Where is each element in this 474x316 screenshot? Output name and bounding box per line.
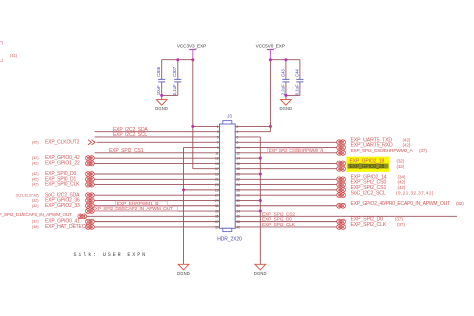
svg-text:DGND: DGND (155, 106, 168, 111)
svg-text:EXP_SPI0_CLK: EXP_SPI0_CLK (45, 182, 80, 188)
svg-text:(32): (32) (32, 219, 39, 224)
svg-text:EXP_SPI2_CLK: EXP_SPI2_CLK (262, 222, 296, 228)
svg-text:(38): (38) (32, 224, 39, 229)
svg-text:(42): (42) (398, 180, 406, 185)
svg-text:17: 17 (215, 167, 219, 171)
svg-text:EXP_I2C2_SCL: EXP_I2C2_SCL (113, 132, 147, 138)
svg-text:DGND: DGND (177, 271, 190, 276)
svg-text:EXP_SPI2_CS2: EXP_SPI2_CS2 (262, 211, 295, 217)
svg-text:(37): (37) (419, 148, 427, 153)
svg-text:EXP_SPI2_CLK: EXP_SPI2_CLK (351, 222, 387, 228)
svg-text:(42): (42) (398, 185, 406, 190)
svg-text:C43: C43 (280, 69, 285, 77)
svg-text:(32): (32) (397, 164, 405, 169)
svg-text:Silk: USER EXPN: Silk: USER EXPN (74, 252, 148, 258)
svg-text:EXP_CLKOUT2: EXP_CLKOUT2 (45, 139, 80, 145)
svg-text:VCC5V0_EXP: VCC5V0_EXP (256, 44, 285, 49)
svg-text:EXP_SPI2_D0: EXP_SPI2_D0 (262, 217, 292, 223)
svg-text:EXP_SPI2_CS1: EXP_SPI2_CS1 (109, 148, 144, 154)
svg-text:10uF: 10uF (156, 85, 161, 95)
svg-text:J3: J3 (227, 114, 232, 119)
svg-text:VCC3V3_EXP: VCC3V3_EXP (177, 44, 206, 49)
svg-text:DGND: DGND (254, 271, 267, 276)
svg-text:EXP_HAT_DETECT: EXP_HAT_DETECT (45, 224, 88, 230)
svg-text:(32): (32) (32, 155, 39, 160)
svg-text:(42): (42) (32, 176, 39, 181)
svg-text:0.1uF: 0.1uF (172, 84, 177, 95)
svg-text:HDR_2X20: HDR_2X20 (217, 236, 242, 242)
svg-text:(37): (37) (397, 222, 405, 227)
svg-text:0.1uF: 0.1uF (294, 84, 299, 95)
svg-text:(42): (42) (403, 143, 411, 148)
svg-text:C307: C307 (172, 66, 177, 77)
svg-text:(42): (42) (32, 139, 39, 144)
svg-text:EXP_SPI2_D0/ECAP2_IN_APWM_OUT: EXP_SPI2_D0/ECAP2_IN_APWM_OUT (92, 206, 173, 212)
svg-text:(42): (42) (32, 171, 39, 176)
svg-text:(42): (42) (403, 137, 411, 142)
svg-text:EXP_GPIO1_22: EXP_GPIO1_22 (45, 161, 80, 167)
svg-text:P_SPI2_D1/ECAP2_IN_APWM_OUT: P_SPI2_D1/ECAP2_IN_APWM_OUT (0, 212, 72, 218)
svg-text:(32): (32) (32, 203, 39, 208)
svg-text:(41): (41) (10, 53, 18, 58)
svg-text:(32): (32) (397, 159, 405, 164)
svg-text:(37): (37) (395, 217, 403, 222)
svg-text:EXP_GPIO2_40/PR0_ECAP0_IN_APWM: EXP_GPIO2_40/PR0_ECAP0_IN_APWM_OUT (351, 201, 451, 207)
svg-text:(34): (34) (398, 174, 406, 179)
svg-text:(9,21,32,37,42): (9,21,32,37,42) (396, 190, 434, 195)
svg-text:(42): (42) (32, 182, 39, 187)
svg-text:EXP_GPIO2_33: EXP_GPIO2_33 (45, 203, 80, 209)
svg-text:C44: C44 (294, 69, 299, 77)
svg-text:SoC_I2C2_SCL: SoC_I2C2_SCL (351, 190, 386, 196)
svg-text:EXP_UART5_RXD: EXP_UART5_RXD (351, 143, 393, 149)
svg-text:C306: C306 (156, 66, 161, 77)
svg-text:(32): (32) (32, 198, 39, 203)
svg-text:2.2uF: 2.2uF (280, 84, 285, 95)
svg-text:(42): (42) (32, 161, 39, 166)
svg-text:EXP_SPI2_CS0/EHRPWM0_A: EXP_SPI2_CS0/EHRPWM0_A (269, 148, 323, 153)
svg-text:EXP_SPI2_CS0/EHRPWM0_A: EXP_SPI2_CS0/EHRPWM0_A (351, 148, 414, 154)
svg-text:(32): (32) (456, 201, 464, 206)
svg-text:EXP_GPIO2_28: EXP_GPIO2_28 (350, 164, 385, 170)
svg-text:EXP_EHRPWM1_B: EXP_EHRPWM1_B (117, 201, 159, 207)
svg-text:DGND: DGND (279, 106, 292, 111)
